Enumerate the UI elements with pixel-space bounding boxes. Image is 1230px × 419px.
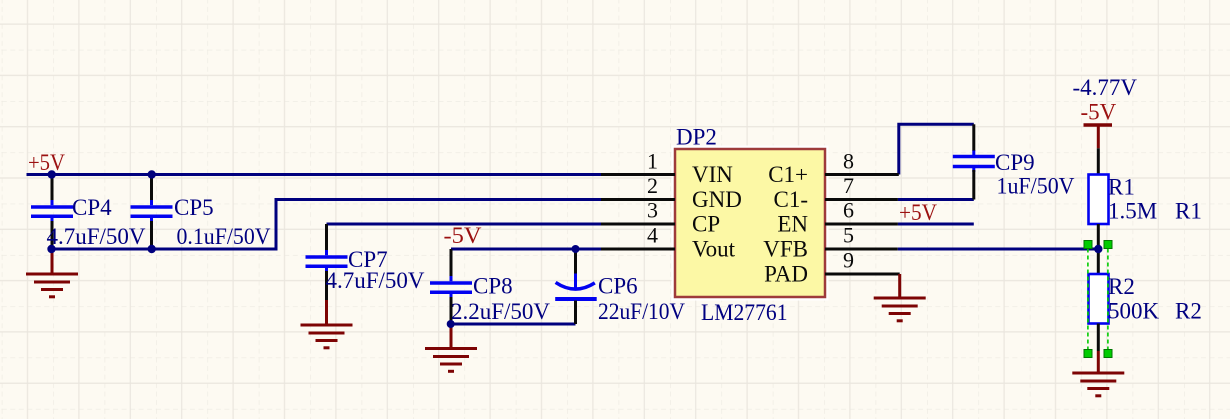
- junction lower CP5: [148, 245, 156, 253]
- svg-text:1.5M: 1.5M: [1108, 199, 1157, 224]
- label R2 comment: [1175, 299, 1202, 324]
- svg-text:VIN: VIN: [692, 162, 733, 187]
- svg-text:9: 9: [843, 248, 854, 273]
- svg-text:4: 4: [647, 223, 658, 248]
- label R1 comment: [1175, 199, 1202, 224]
- capacitor CP8: [430, 249, 550, 324]
- svg-text:C1+: C1+: [768, 162, 808, 187]
- pin 6 EN: [777, 198, 898, 237]
- svg-text:7: 7: [843, 173, 854, 198]
- svg-text:500K: 500K: [1108, 299, 1160, 324]
- IC DP2 LM27761: [675, 125, 825, 326]
- svg-text:R1: R1: [1108, 175, 1135, 200]
- ground (CP7): [301, 300, 353, 348]
- svg-text:LM27761: LM27761: [701, 300, 788, 325]
- resistor R2: [1089, 274, 1160, 324]
- svg-text:2: 2: [647, 173, 658, 198]
- svg-text:3: 3: [647, 198, 658, 223]
- wire R2 to ground: [1097, 324, 1100, 352]
- junction rail CP4: [48, 170, 56, 178]
- wire C1+ net: [899, 124, 974, 174]
- pin 2 GND: [601, 173, 742, 212]
- wire C1- net: [898, 198, 974, 201]
- ground (CP4): [26, 249, 78, 297]
- power -5V port: [1081, 100, 1117, 149]
- svg-text:R2: R2: [1175, 299, 1202, 324]
- capacitor CP7: [306, 224, 425, 300]
- svg-text:DP2: DP2: [676, 125, 717, 150]
- label -4.77V: [1073, 75, 1138, 100]
- svg-text:4.7uF/50V: 4.7uF/50V: [47, 224, 146, 249]
- pin 9 PAD: [764, 248, 900, 287]
- svg-text:R1: R1: [1175, 199, 1202, 224]
- junction lower CP4: [47, 245, 55, 253]
- label -5V net: [444, 223, 482, 248]
- pin 1 VIN: [601, 149, 733, 188]
- wire GND net lower: [52, 200, 602, 250]
- wire EN net: [898, 223, 974, 226]
- ground (PAD): [874, 274, 926, 321]
- junction rail CP5: [148, 170, 156, 178]
- ground (R2): [1072, 351, 1124, 396]
- svg-text:CP9: CP9: [995, 150, 1035, 175]
- selection handles R2: [1084, 241, 1112, 358]
- wire +5V rail: [27, 173, 602, 176]
- svg-text:-5V: -5V: [444, 223, 482, 248]
- capacitor CP5: [131, 175, 271, 250]
- pin 7 C1-: [774, 173, 898, 212]
- svg-text:22uF/10V: 22uF/10V: [598, 299, 685, 324]
- wire Vout net: [451, 248, 601, 251]
- label +5V net: [899, 200, 937, 225]
- svg-text:0.1uF/50V: 0.1uF/50V: [177, 224, 271, 249]
- svg-text:GND: GND: [692, 187, 742, 212]
- svg-text:VFB: VFB: [763, 237, 808, 262]
- resistor R1: [1089, 175, 1158, 225]
- svg-text:CP5: CP5: [174, 195, 214, 220]
- svg-text:1: 1: [647, 149, 658, 174]
- pin 5 VFB: [763, 223, 897, 262]
- svg-text:6: 6: [843, 198, 854, 223]
- capacitor CP6 (polarized): [555, 249, 685, 324]
- ground (CP8): [425, 324, 477, 371]
- junction Vout CP6: [572, 245, 580, 253]
- svg-text:+5V: +5V: [28, 150, 65, 175]
- svg-text:CP: CP: [692, 212, 720, 237]
- pin 4 Vout: [601, 223, 736, 262]
- svg-text:CP6: CP6: [598, 274, 638, 299]
- svg-text:-5V: -5V: [1081, 100, 1117, 125]
- svg-text:C1-: C1-: [774, 187, 809, 212]
- junction VFB divider: [1094, 245, 1102, 253]
- svg-text:4.7uF/50V: 4.7uF/50V: [326, 268, 425, 293]
- svg-text:8: 8: [843, 149, 854, 174]
- wire R1 to junction: [1097, 224, 1100, 249]
- svg-text:2.2uF/50V: 2.2uF/50V: [451, 299, 550, 324]
- svg-text:EN: EN: [777, 212, 808, 237]
- pin 3 CP: [601, 198, 720, 237]
- capacitor CP9: [953, 124, 1075, 199]
- svg-text:CP8: CP8: [473, 274, 513, 299]
- wire CP net: [327, 223, 602, 226]
- wire junction to R2: [1097, 249, 1100, 274]
- svg-text:CP4: CP4: [72, 195, 112, 220]
- svg-text:5: 5: [843, 223, 854, 248]
- wire -5V to R1: [1097, 148, 1100, 174]
- wire CP8-CP6 bottom net: [451, 323, 576, 326]
- capacitor CP4: [31, 175, 146, 250]
- svg-text:PAD: PAD: [764, 262, 808, 287]
- power +5V: [28, 150, 65, 175]
- svg-text:R2: R2: [1108, 274, 1135, 299]
- wire VFB net: [898, 248, 1099, 251]
- svg-text:+5V: +5V: [899, 200, 937, 225]
- svg-text:1uF/50V: 1uF/50V: [997, 174, 1075, 199]
- svg-text:Vout: Vout: [692, 237, 736, 262]
- svg-text:-4.77V: -4.77V: [1073, 75, 1138, 100]
- junction CP8 bottom: [447, 320, 455, 328]
- pin 8 C1+: [768, 149, 899, 188]
